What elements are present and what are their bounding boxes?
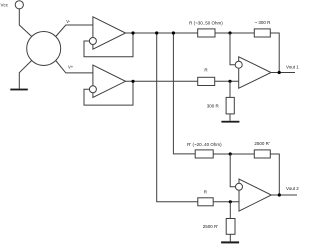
wire R8 to ground: [229, 234, 231, 241]
wire R5 to R6: [213, 153, 254, 155]
svg-text:~ 300 R: ~ 300 R: [255, 20, 272, 25]
svg-text:Vcc: Vcc: [1, 2, 9, 7]
wire Vcc to sensor: [19, 9, 31, 37]
resistor R6 2500R': [254, 150, 270, 158]
wire R7 to U4 plus: [213, 201, 239, 203]
wire to R4: [229, 81, 231, 97]
ground: [221, 241, 239, 243]
op-amp U2: [93, 65, 126, 97]
wire sensor to ground: [19, 61, 31, 89]
wire U1 feedback: [84, 33, 133, 57]
resistor R7: [198, 198, 213, 206]
wire R1 to R2: [215, 32, 254, 34]
node U4 inverting: [229, 152, 232, 155]
op-amp U3: [239, 57, 271, 88]
wire bus to lower R: [157, 33, 198, 202]
resistor R8 2500R' vertical: [226, 219, 235, 235]
wire R4 to ground: [229, 114, 231, 121]
svg-text:300 R: 300 R: [207, 103, 220, 108]
ground: [10, 89, 28, 91]
svg-text:R (~30..50 Ohm): R (~30..50 Ohm): [189, 21, 223, 26]
node U4 out: [278, 193, 281, 196]
wire R3 to U3 plus: [215, 80, 239, 82]
wire to R8: [229, 202, 231, 219]
svg-text:2500 R': 2500 R': [254, 141, 270, 146]
node U3 inverting: [228, 31, 231, 34]
wire U2 output: [126, 80, 198, 82]
sensor circle: [27, 32, 61, 66]
svg-text:R: R: [204, 189, 208, 194]
svg-text:Vout 2: Vout 2: [286, 186, 299, 191]
node U3 plus: [228, 80, 231, 83]
wire U4 output: [271, 194, 297, 196]
node bus1: [155, 31, 158, 34]
wire R6 to U4 output: [270, 154, 279, 195]
resistor R4 300R vertical: [226, 97, 234, 114]
node bus2: [172, 31, 175, 34]
svg-text:2500 R': 2500 R': [203, 224, 219, 229]
node U1 out: [131, 31, 134, 34]
ground: [221, 121, 239, 123]
wire bus to R': [173, 33, 195, 154]
op-amp U4: [239, 179, 271, 211]
resistor R3: [198, 77, 215, 85]
node U4 plus: [229, 200, 232, 203]
wire U2 feedback: [84, 81, 133, 105]
wire U3 output: [271, 72, 295, 74]
svg-text:V-: V-: [66, 19, 71, 24]
node U3 out: [278, 71, 281, 74]
wire to U3 inverting: [230, 33, 235, 65]
svg-text:R: R: [204, 67, 208, 72]
svg-text:Vout 1: Vout 1: [286, 65, 299, 70]
op-amp U1: [93, 17, 126, 49]
Vcc terminal: [15, 1, 23, 9]
wire to U4 inverting: [230, 154, 235, 187]
resistor R5: [195, 150, 213, 158]
wire sensor to V+: [56, 61, 93, 73]
svg-text:V+: V+: [68, 64, 74, 69]
resistor R2 300R: [254, 29, 270, 37]
node U2 out: [131, 80, 134, 83]
resistor R1: [198, 29, 215, 37]
svg-text:R' (~20..40 Ohm): R' (~20..40 Ohm): [187, 142, 222, 147]
wire sensor to V-: [56, 25, 93, 37]
wire U1 output: [126, 32, 198, 34]
wire R2 to U3 output: [270, 33, 279, 73]
